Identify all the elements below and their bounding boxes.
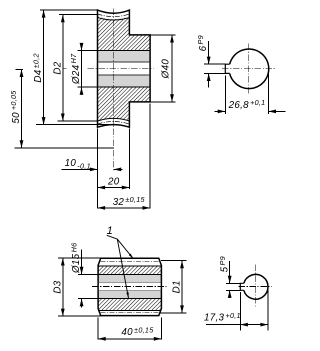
worm pitch line bottom <box>101 312 159 314</box>
dimension 26.8 <box>215 71 286 115</box>
dimension 20 <box>98 176 130 189</box>
bore line top <box>98 50 151 52</box>
dimension 17.3 <box>204 289 268 331</box>
dimension 40 <box>98 318 161 341</box>
bore line bottom <box>98 86 151 88</box>
worm center line <box>92 286 167 288</box>
extension line tooth right face <box>128 129 130 190</box>
keyway line bottom <box>98 74 151 76</box>
tooth pitch line bottom <box>98 122 130 125</box>
vertical center line gear tooth plane <box>113 9 115 171</box>
worm bore circle with keyway <box>240 274 268 299</box>
dimension keyway 5 P9 <box>218 256 240 298</box>
svg-text:D1: D1 <box>171 280 182 293</box>
gear body hatching <box>95 15 153 125</box>
worm root line bottom <box>98 309 161 311</box>
worm bore line bottom <box>98 298 161 300</box>
worm pitch line top <box>101 260 159 262</box>
dimension 50+0.05 <box>9 69 23 147</box>
worm bore gray band lower <box>98 291 161 299</box>
bore circle with keyway <box>225 49 268 89</box>
circle vertical center line <box>248 44 250 94</box>
worm keyway line bottom <box>98 290 161 292</box>
svg-text:Ø40: Ø40 <box>161 59 172 80</box>
extension line hub right face <box>149 104 151 209</box>
dimension hub 40 <box>150 35 176 102</box>
horizontal center line gear <box>64 68 154 70</box>
worm outline <box>98 258 161 315</box>
dimension D4 <box>31 10 113 125</box>
worm circle horizontal center line <box>239 285 272 287</box>
dimension D3 <box>52 258 100 316</box>
worm bore line top <box>98 273 161 275</box>
dimension D2 <box>52 15 97 122</box>
svg-text:D3: D3 <box>52 280 63 293</box>
worm keyway line top <box>98 281 161 283</box>
tooth root line top <box>98 17 130 20</box>
dimension bore 15 H6 <box>69 243 98 308</box>
bore gray band lower <box>98 75 151 87</box>
dimension bore 24 H7 <box>69 43 97 95</box>
worm axis reference line <box>15 147 114 149</box>
keyway line top <box>98 61 151 63</box>
circle horizontal center line <box>222 68 276 70</box>
tooth root line bottom <box>98 118 130 121</box>
dimension 10-0.1 <box>62 158 123 171</box>
svg-text:D2: D2 <box>52 61 63 74</box>
worm bore gray band upper <box>98 274 161 282</box>
dimension 32 <box>98 195 151 210</box>
bore gray band upper <box>98 51 151 62</box>
worm root line top <box>98 265 161 267</box>
tooth pitch line top <box>98 14 130 17</box>
worm thread hatching upper <box>98 266 161 275</box>
worm thread hatching lower <box>98 299 161 311</box>
gear outline <box>98 10 151 127</box>
svg-text:20: 20 <box>107 176 120 187</box>
item number 1 with leaders <box>107 225 134 298</box>
worm circle vertical center line <box>255 265 257 308</box>
dimension keyway 6 P9 <box>196 35 225 87</box>
dimension D1 <box>160 261 187 313</box>
extension line gear left face <box>97 129 99 209</box>
